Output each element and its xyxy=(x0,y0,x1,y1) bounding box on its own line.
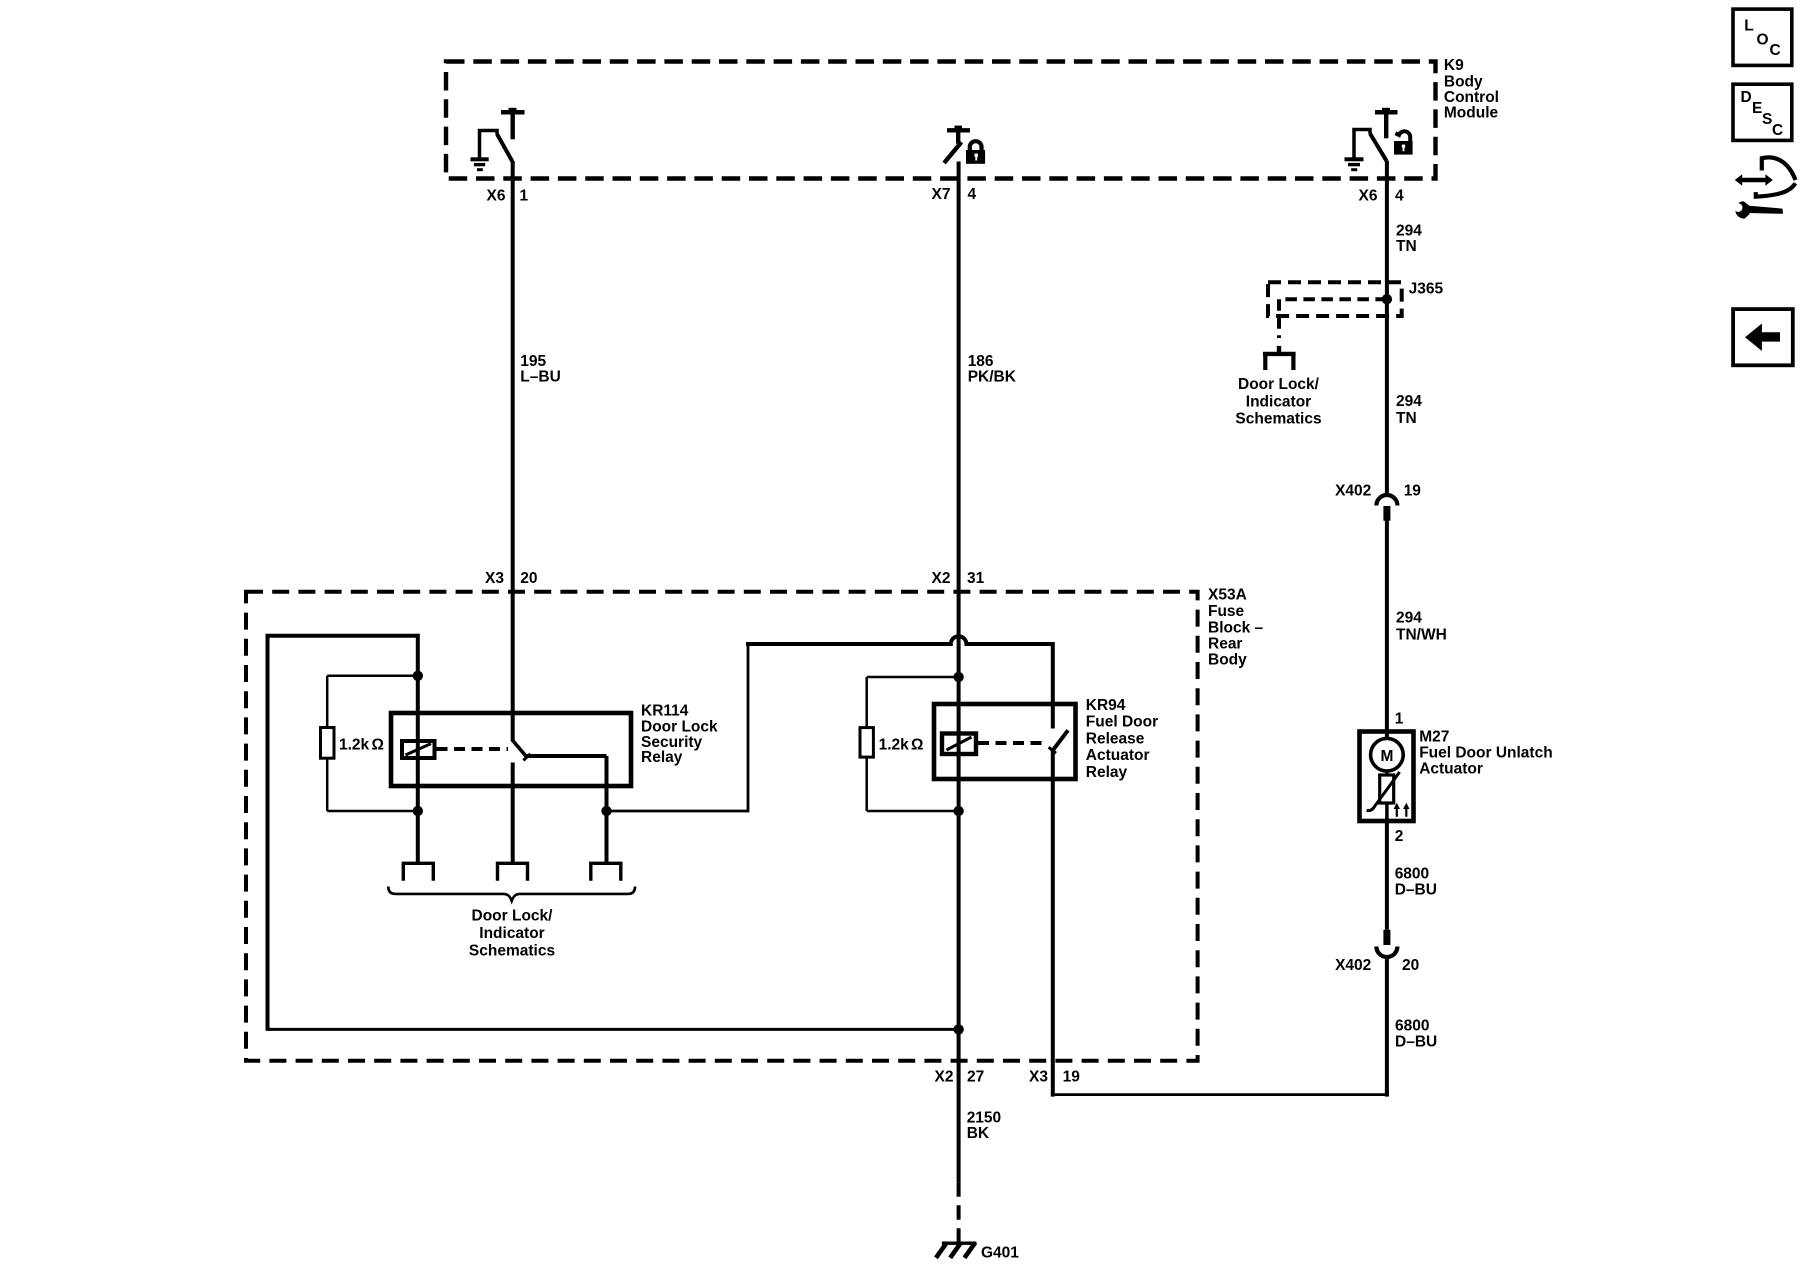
svg-text:1: 1 xyxy=(520,188,529,205)
svg-text:X402: X402 xyxy=(1335,482,1371,499)
svg-text:G401: G401 xyxy=(981,1245,1019,1262)
relay KR114 switch blade xyxy=(513,741,531,761)
node KR94 coil top xyxy=(953,672,963,682)
svg-text:M27: M27 xyxy=(1419,729,1449,746)
svg-text:19: 19 xyxy=(1063,1069,1081,1086)
node KR114 coil bottom xyxy=(413,806,423,816)
svg-text:L: L xyxy=(1744,18,1753,35)
svg-text:1.2k: 1.2k xyxy=(879,737,910,754)
label door lock/indicator schematics (right) xyxy=(1235,376,1321,428)
label door lock/indicator schematics (left) xyxy=(469,907,555,959)
wire 294 TN (J365 to X402) label xyxy=(1396,393,1422,427)
svg-text:Actuator: Actuator xyxy=(1419,761,1483,778)
PTC thermistor (self-resetting) inside M27 xyxy=(1367,771,1400,823)
svg-text:J365: J365 xyxy=(1409,280,1444,297)
svg-text:Fuel Door: Fuel Door xyxy=(1086,714,1158,731)
connector label X6 pin 4 xyxy=(1359,188,1404,205)
wire 6800 D-BU (M27 to X402 pin 20) xyxy=(1387,821,1437,930)
brace (to door lock/indicator schematics) xyxy=(388,887,635,901)
node 186 wire to left loop return xyxy=(953,1024,963,1034)
svg-text:Block –: Block – xyxy=(1208,620,1264,637)
svg-text:6800: 6800 xyxy=(1395,866,1429,883)
connector label X2 pin 31 xyxy=(932,570,985,587)
resistor 1.2k (KR114) xyxy=(321,676,418,811)
svg-text:Rear: Rear xyxy=(1208,635,1242,652)
connector label X7 pin 4 xyxy=(932,186,977,203)
wire feed loop (left) to KR114 coil xyxy=(266,636,959,1030)
svg-text:186: 186 xyxy=(968,353,994,370)
svg-text:TN: TN xyxy=(1396,410,1417,427)
svg-text:19: 19 xyxy=(1404,482,1422,499)
door lock switch S1 (in BCM, with ground) xyxy=(480,108,525,162)
svg-text:Indicator: Indicator xyxy=(479,925,544,942)
svg-text:KR94: KR94 xyxy=(1086,697,1126,714)
svg-text:K9: K9 xyxy=(1444,57,1464,74)
X53A Fuse Block - Rear Body dashed box xyxy=(246,592,1198,1061)
svg-text:294: 294 xyxy=(1396,393,1422,410)
relay KR114 coil xyxy=(402,741,435,758)
relay KR94 switch blade xyxy=(1049,730,1068,753)
svg-text:D: D xyxy=(1741,89,1752,106)
svg-text:2: 2 xyxy=(1395,828,1404,845)
DESC icon button xyxy=(1733,84,1792,140)
ground (S1) xyxy=(471,157,489,171)
svg-text:TN: TN xyxy=(1396,238,1417,255)
svg-text:Module: Module xyxy=(1444,105,1499,122)
resistor 1.2k (KR94) xyxy=(860,677,959,811)
wire from riser to KR94 switch (hops over 186 PK/BK wire) xyxy=(746,636,1053,644)
wire riser from KR114 NO to KR94 feed xyxy=(607,642,749,812)
svg-text:1.2k: 1.2k xyxy=(339,737,370,754)
relay KR114 box xyxy=(391,713,631,786)
ground G401 xyxy=(936,1242,1019,1262)
svg-text:195: 195 xyxy=(520,353,546,370)
svg-text:KR114: KR114 xyxy=(641,703,689,720)
svg-text:Control: Control xyxy=(1444,89,1499,106)
wire dashed branch from J365 to door lock/indicator schematics xyxy=(1279,299,1387,338)
svg-text:D–BU: D–BU xyxy=(1395,882,1437,899)
wire 294 TN (S3 to X402) xyxy=(1387,161,1422,496)
M27 label xyxy=(1419,729,1552,778)
svg-text:X2: X2 xyxy=(935,1069,954,1086)
terminal (KR114 common) xyxy=(498,863,528,881)
svg-text:Release: Release xyxy=(1086,730,1145,747)
door unlock switch S3 (in BCM, with ground and unlock icon) xyxy=(1354,108,1398,161)
relay KR114 linkage (dashed) xyxy=(437,747,509,751)
svg-text:X3: X3 xyxy=(485,570,504,587)
svg-text:Body: Body xyxy=(1208,652,1247,669)
off-page reference symbol (door lock/indicator schematics) xyxy=(1263,346,1296,370)
svg-text:27: 27 xyxy=(967,1069,984,1086)
double up-arrows inside M27 xyxy=(1394,803,1410,817)
node KR94 coil bottom xyxy=(953,806,963,816)
svg-text:20: 20 xyxy=(520,570,537,587)
wire 2150 BK (to ground) xyxy=(959,1110,1002,1242)
node KR114 coil top xyxy=(413,671,423,681)
wire 195 L-BU (S1 to KR114) xyxy=(513,161,561,742)
svg-text:X2: X2 xyxy=(932,570,951,587)
svg-text:Door Lock/: Door Lock/ xyxy=(1238,376,1320,393)
svg-text:X402: X402 xyxy=(1335,957,1371,974)
svg-text:C: C xyxy=(1770,42,1781,59)
wire 294 TN/WH (X402 to M27) xyxy=(1387,521,1447,740)
relay KR114 NO contact wire xyxy=(527,756,607,864)
svg-text:BK: BK xyxy=(967,1125,990,1142)
svg-text:Schematics: Schematics xyxy=(1235,411,1321,428)
connector label X2 pin 27 xyxy=(935,1069,985,1086)
connector X402 pin 19 xyxy=(1335,482,1421,520)
svg-text:6800: 6800 xyxy=(1395,1018,1429,1035)
node J365 junction dot xyxy=(1382,294,1392,304)
svg-text:Door Lock/: Door Lock/ xyxy=(472,907,554,924)
svg-text:O: O xyxy=(1757,32,1769,49)
svg-text:Actuator: Actuator xyxy=(1086,747,1150,764)
node KR114 NO to riser xyxy=(601,806,611,816)
svg-text:294: 294 xyxy=(1396,222,1422,239)
svg-text:Relay: Relay xyxy=(1086,764,1128,781)
connector label X6 pin 1 xyxy=(487,188,529,205)
svg-text:X3: X3 xyxy=(1029,1069,1048,1086)
svg-text:M: M xyxy=(1380,748,1393,765)
svg-text:31: 31 xyxy=(967,570,985,587)
splice J365 dashed box xyxy=(1268,280,1443,316)
svg-text:D–BU: D–BU xyxy=(1395,1034,1437,1051)
svg-text:Relay: Relay xyxy=(641,749,683,766)
K9 Body Control Module label xyxy=(1444,57,1499,121)
svg-text:Indicator: Indicator xyxy=(1246,394,1311,411)
svg-text:Body: Body xyxy=(1444,73,1483,90)
svg-text:X7: X7 xyxy=(932,186,951,203)
svg-text:Ω: Ω xyxy=(372,737,384,754)
svg-text:4: 4 xyxy=(1395,188,1404,205)
svg-text:Fuse: Fuse xyxy=(1208,603,1245,620)
terminal (KR114 coil return) xyxy=(403,863,433,881)
svg-text:Schematics: Schematics xyxy=(469,942,555,959)
wire 186 PK/BK (S2 through KR94 coil to ground G401) xyxy=(959,162,1017,1183)
adjust/repair icon (double arrow, hand outline, wrench) xyxy=(1734,157,1796,218)
svg-text:X6: X6 xyxy=(487,188,506,205)
svg-text:PK/BK: PK/BK xyxy=(968,368,1017,385)
svg-text:1: 1 xyxy=(1395,711,1404,728)
svg-text:Fuel Door Unlatch: Fuel Door Unlatch xyxy=(1419,745,1552,762)
svg-text:TN/WH: TN/WH xyxy=(1396,627,1447,644)
svg-text:E: E xyxy=(1752,100,1762,117)
relay KR114 lower fixed contact wire xyxy=(511,763,515,864)
relay KR94 switch output wire xyxy=(1051,750,1055,1096)
svg-text:X53A: X53A xyxy=(1208,586,1247,603)
KR94 label xyxy=(1086,697,1158,781)
svg-text:294: 294 xyxy=(1396,609,1422,626)
relay KR94 box xyxy=(934,704,1076,779)
door lock switch S2 (in BCM, with lock icon) xyxy=(946,126,971,162)
svg-text:X6: X6 xyxy=(1359,188,1378,205)
unlock icon (open padlock) xyxy=(1394,131,1413,154)
K9 Body Control Module box xyxy=(446,62,1436,179)
wire KR94 switch feed xyxy=(1051,642,1055,729)
connector X402 pin 20 xyxy=(1335,930,1419,974)
svg-text:L–BU: L–BU xyxy=(520,368,560,385)
svg-text:20: 20 xyxy=(1402,957,1419,974)
terminal (KR114 NO) xyxy=(591,863,621,881)
connector label X3 pin 19 xyxy=(1029,1069,1080,1086)
connector label X3 pin 20 xyxy=(485,570,538,587)
svg-text:C: C xyxy=(1772,122,1783,139)
motor M27 Fuel Door Unlatch Actuator box xyxy=(1360,732,1414,822)
KR114 label xyxy=(641,703,718,767)
wire KR114 coil vertical xyxy=(416,634,420,864)
relay KR94 coil xyxy=(942,734,976,755)
relay KR94 linkage (dashed) xyxy=(978,741,1047,745)
motor symbol M xyxy=(1371,738,1404,771)
back arrow button xyxy=(1733,309,1793,365)
svg-text:S: S xyxy=(1762,111,1772,128)
lock icon (closed padlock) xyxy=(966,141,985,164)
LOC icon button xyxy=(1733,9,1792,65)
svg-text:4: 4 xyxy=(968,186,977,203)
ground (S3) xyxy=(1345,157,1364,171)
svg-text:Ω: Ω xyxy=(911,737,923,754)
X53A label xyxy=(1208,586,1264,668)
wire 6800 D-BU (X402 to fuse block X3/19) xyxy=(1053,957,1437,1097)
